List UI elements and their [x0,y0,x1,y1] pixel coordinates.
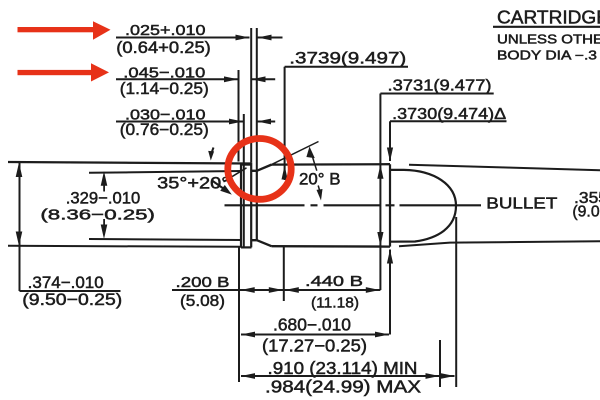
svg-text:.200 B: .200 B [176,274,230,291]
svg-text:.3739(9.497): .3739(9.497) [289,49,406,68]
svg-text:UNLESS OTHE: UNLESS OTHE [497,33,600,47]
svg-text:(1.14−0.25): (1.14−0.25) [120,80,209,98]
svg-text:BULLET: BULLET [486,195,557,212]
svg-text:.984(24.99) MAX: .984(24.99) MAX [265,377,421,397]
svg-text:.025+.010: .025+.010 [125,22,206,39]
svg-text:BODY DIA −.3: BODY DIA −.3 [497,49,597,63]
svg-text:(9.50−0.25): (9.50−0.25) [22,290,122,309]
svg-text:35°+20°: 35°+20° [157,175,229,193]
svg-text:20° B: 20° B [299,171,341,189]
svg-text:(17.27−0.25): (17.27−0.25) [262,336,367,356]
svg-text:.440 B: .440 B [305,273,363,290]
svg-text:.3731(9.477): .3731(9.477) [388,78,492,95]
svg-text:.3730(9.474)Δ: .3730(9.474)Δ [392,106,506,123]
svg-text:(9.02: (9.02 [572,204,600,221]
svg-text:.329−.010: .329−.010 [66,189,140,208]
svg-text:(8.36−0.25): (8.36−0.25) [40,207,155,224]
svg-text:.680−.010: .680−.010 [273,315,351,335]
svg-text:(11.18): (11.18) [311,295,359,312]
svg-text:(5.08): (5.08) [180,293,225,310]
svg-text:(0.76−0.25): (0.76−0.25) [120,121,209,139]
svg-text:CARTRIDGE: CARTRIDGE [497,8,600,28]
svg-text:.910 (23.114) MIN: .910 (23.114) MIN [268,358,418,378]
svg-text:.045−.010: .045−.010 [123,65,205,82]
svg-text:(0.64+0.25): (0.64+0.25) [116,39,211,57]
